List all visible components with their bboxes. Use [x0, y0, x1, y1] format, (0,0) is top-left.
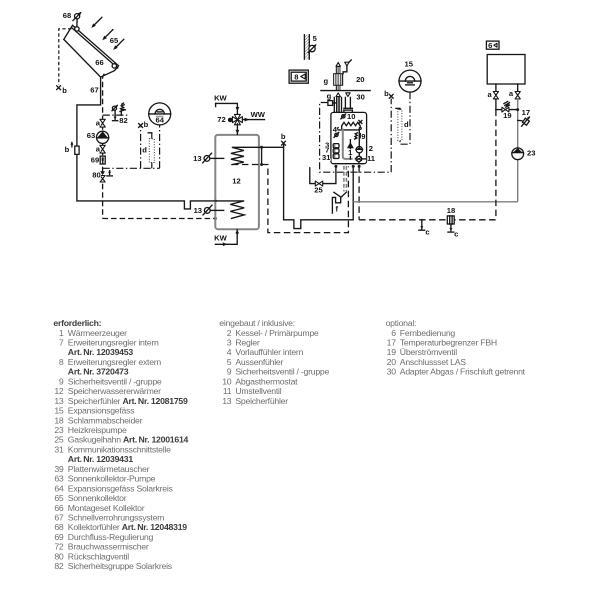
sensor connection square (outdoor sensor to boiler) — [328, 101, 336, 106]
internal gray pipe loop — [343, 129, 353, 159]
svg-text:Sicherheitsventil / -gruppe: Sicherheitsventil / -gruppe — [68, 376, 162, 386]
svg-text:31: 31 — [54, 444, 64, 454]
svg-text:9: 9 — [227, 367, 232, 377]
svg-text:65: 65 — [110, 36, 119, 45]
DHW mixer 72 — [228, 114, 243, 124]
svg-text:63: 63 — [87, 131, 95, 140]
shutoff valve a (heating supply) — [487, 90, 498, 99]
svg-text:Vorlauffühler intern: Vorlauffühler intern — [235, 347, 303, 357]
flue gas thermostat 10 — [341, 114, 346, 119]
controller modules 3/7/31 — [333, 144, 339, 159]
shutoff valve a (above solar pump) — [96, 118, 106, 127]
svg-text:30: 30 — [387, 367, 397, 377]
wire: vessel 15 connection (dash-dot) — [400, 92, 410, 144]
svg-text:b: b — [62, 86, 67, 95]
svg-text:4: 4 — [227, 347, 232, 357]
wire: heating supply from diverter (dashed) — [358, 166, 360, 219]
solar expansion vessel 64 — [149, 103, 171, 125]
svg-text:Fernbedienung: Fernbedienung — [400, 328, 456, 338]
condensate pipes (gray dashed) — [344, 166, 347, 192]
svg-text:Regler: Regler — [235, 338, 259, 348]
svg-text:9: 9 — [59, 376, 64, 386]
svg-text:Adapter Abgas / Frischluft get: Adapter Abgas / Frischluft getrennt — [400, 367, 526, 377]
tank sensor 13 (upper) — [203, 153, 224, 163]
svg-text:25: 25 — [54, 435, 64, 445]
wire: DHW flow pipe tank to boiler (solid, node b) — [244, 147, 353, 228]
flue inner pipe hatch below roof line — [337, 97, 340, 112]
svg-text:Heizkreispumpe: Heizkreispumpe — [68, 425, 127, 435]
svg-text:64: 64 — [155, 116, 164, 125]
svg-text:7: 7 — [59, 338, 64, 348]
svg-text:b: b — [65, 145, 70, 154]
outdoor sensor 5 — [308, 44, 316, 53]
svg-text:Sonnenkollektor: Sonnenkollektor — [68, 493, 127, 503]
svg-text:6: 6 — [391, 328, 396, 338]
wire: return pipe (gray) — [517, 99, 519, 202]
svg-text:19: 19 — [503, 111, 511, 120]
collector sensor 68 — [73, 12, 82, 26]
shutoff valve a (heating return) — [509, 89, 520, 99]
svg-text:KW: KW — [214, 233, 227, 242]
flow regulator 69 — [100, 156, 105, 164]
drain c (supply line) — [419, 220, 430, 237]
svg-text:b: b — [144, 120, 149, 129]
svg-text:1: 1 — [59, 328, 64, 338]
svg-text:13: 13 — [222, 396, 232, 406]
svg-text:3: 3 — [227, 338, 232, 348]
gas pipe with ball valve 25 — [310, 166, 336, 186]
svg-text:12: 12 — [232, 176, 240, 185]
wire: heating return (gray) — [353, 201, 518, 203]
svg-text:66: 66 — [95, 58, 103, 67]
boiler heat exchanger (zigzag) — [342, 122, 361, 128]
svg-text:Brauchwassermischer: Brauchwassermischer — [68, 542, 149, 552]
svg-text:17: 17 — [522, 108, 530, 117]
svg-text:Sicherheitsventil / -gruppe: Sicherheitsventil / -gruppe — [235, 367, 329, 377]
svg-text:Expansionsgefäss Solarkreis: Expansionsgefäss Solarkreis — [68, 483, 174, 493]
svg-text:2: 2 — [227, 328, 232, 338]
svg-text:Sonnenkollektor-Pumpe: Sonnenkollektor-Pumpe — [68, 474, 156, 484]
boiler pump 1 (triangle) — [347, 140, 354, 159]
svg-text:g: g — [327, 91, 332, 100]
svg-text:Erweiterungsregler extern: Erweiterungsregler extern — [68, 357, 162, 367]
svg-text:Überströmventil: Überströmventil — [400, 347, 457, 357]
svg-text:11: 11 — [223, 386, 232, 396]
wire: cold water inlet KW (bottom) — [215, 230, 238, 246]
roof separator line — [321, 90, 370, 92]
svg-text:Wärmeerzeuger: Wärmeerzeuger — [68, 328, 127, 338]
svg-text:2: 2 — [369, 144, 373, 153]
svg-text:c: c — [454, 229, 458, 238]
dirt separator 18 — [447, 216, 454, 224]
overflow valve 19 branch — [496, 102, 519, 113]
svg-text:13: 13 — [54, 396, 64, 406]
svg-text:23: 23 — [54, 425, 64, 435]
sun arrows 65 — [91, 17, 102, 28]
flue pipe adapter into boiler — [344, 97, 353, 112]
svg-text:82: 82 — [54, 561, 64, 571]
LAS flue set 20 (above roof line) — [334, 67, 343, 91]
wire: DHW loading loop (dashed) — [232, 165, 349, 233]
svg-text:13: 13 — [194, 206, 202, 215]
wire: mixer to tank top — [236, 124, 240, 135]
svg-text:6: 6 — [488, 41, 492, 50]
svg-text:Kollektorfühler Art. Nr. 12048: Kollektorfühler Art. Nr. 12048319 — [68, 522, 187, 532]
heating pump 23 — [512, 148, 524, 160]
air intake triangle (20) — [336, 63, 340, 67]
svg-text:67: 67 — [54, 513, 64, 523]
flow direction element b (left pipe) — [65, 141, 80, 154]
svg-text:b: b — [384, 89, 389, 98]
dashed sensor line to node b (collector) — [59, 29, 72, 85]
primary pump 2 — [356, 147, 363, 153]
warm water outlet WW arrow — [242, 118, 264, 122]
svg-text:68: 68 — [54, 522, 64, 532]
svg-text:Umstellventil: Umstellventil — [235, 386, 281, 396]
internal flow pipe — [337, 128, 359, 147]
svg-text:65: 65 — [54, 493, 64, 503]
svg-text:11: 11 — [367, 154, 376, 163]
svg-text:5: 5 — [227, 357, 232, 367]
sensor pocket d (solar) — [148, 133, 154, 169]
svg-text:c: c — [425, 228, 429, 237]
safety group 82 (dash-dot branch) — [103, 113, 128, 116]
wire: solar flow pipe 67 (solid) — [77, 77, 215, 209]
boiler flow sensor point x — [359, 121, 362, 124]
svg-text:31: 31 — [322, 153, 331, 162]
remote control box 6 — [486, 41, 499, 50]
svg-text:69: 69 — [54, 532, 64, 542]
svg-text:80: 80 — [54, 551, 64, 561]
svg-text:eingebaut / inklusive:: eingebaut / inklusive: — [219, 318, 295, 328]
manifold stubs — [496, 84, 518, 91]
svg-text:20: 20 — [387, 357, 397, 367]
flue outlet triangle (20) — [343, 60, 351, 74]
svg-text:72: 72 — [54, 542, 64, 552]
svg-text:erforderlich:: erforderlich: — [53, 318, 101, 328]
svg-text:10: 10 — [347, 112, 355, 121]
wire: solar return pipe (dashed) — [103, 74, 105, 219]
svg-text:Durchfluss-Regulierung: Durchfluss-Regulierung — [68, 532, 154, 542]
svg-text:Gaskugelhahn Art. Nr. 12001614: Gaskugelhahn Art. Nr. 12001614 — [68, 435, 189, 445]
boiler 1 (wall unit) — [331, 112, 367, 163]
svg-text:8: 8 — [294, 72, 298, 81]
svg-text:d: d — [404, 120, 409, 129]
svg-text:Kessel- / Primärpumpe: Kessel- / Primärpumpe — [235, 328, 319, 338]
condensate funnel and siphon f — [332, 192, 346, 213]
remote control box 8 — [289, 70, 308, 83]
node b (collector) — [57, 86, 68, 95]
wire: supply pipe (dashed) down — [495, 110, 497, 220]
svg-text:20: 20 — [356, 75, 364, 84]
svg-text:10: 10 — [222, 376, 232, 386]
outdoor wall with sensor 5 — [304, 35, 309, 60]
svg-text:68: 68 — [63, 11, 71, 20]
svg-text:67: 67 — [90, 86, 98, 95]
svg-text:Temperaturbegrenzer FBH: Temperaturbegrenzer FBH — [400, 338, 497, 348]
svg-text:optional:: optional: — [386, 318, 417, 328]
svg-text:69: 69 — [91, 155, 99, 164]
heating expansion vessel 15 — [399, 70, 421, 92]
wire: cold water inlet KW (top) — [216, 103, 240, 114]
svg-text:Aussenfühler: Aussenfühler — [235, 357, 283, 367]
svg-text:18: 18 — [447, 206, 455, 215]
lower coil (solar heat exchanger) — [215, 201, 244, 219]
air pipes into boiler — [334, 97, 341, 112]
svg-text:d: d — [142, 146, 147, 155]
svg-text:39: 39 — [54, 464, 64, 474]
storage tank 12 — [215, 135, 259, 229]
svg-text:64: 64 — [54, 483, 64, 493]
svg-text:Art. Nr. 12039431: Art. Nr. 12039431 — [68, 454, 134, 464]
upper coil (solar heat exchanger feed from boiler) — [231, 147, 244, 164]
svg-text:g: g — [323, 76, 328, 85]
svg-text:Schlammabscheider: Schlammabscheider — [68, 415, 143, 425]
junction tank flow/return — [260, 146, 263, 166]
svg-text:15: 15 — [54, 406, 64, 416]
svg-text:Art. Nr. 3720473: Art. Nr. 3720473 — [68, 367, 129, 377]
wire: dash-dot control boundary around boiler — [320, 99, 392, 173]
svg-text:82: 82 — [119, 116, 127, 125]
svg-text:Kommunikationsschnittstelle: Kommunikationsschnittstelle — [68, 444, 171, 454]
svg-text:23: 23 — [527, 148, 535, 157]
manometer (82 group) — [112, 105, 118, 116]
svg-text:Anschlussset LAS: Anschlussset LAS — [400, 357, 466, 367]
svg-text:30: 30 — [356, 92, 364, 101]
svg-text:Erweiterungsregler intern: Erweiterungsregler intern — [68, 338, 159, 348]
internal safety valve 9 — [354, 133, 360, 140]
svg-text:Speicherwassererwärmer: Speicherwassererwärmer — [68, 386, 161, 396]
wire: supply pipe solid part — [495, 99, 497, 110]
temperature limiter 17 — [518, 116, 531, 126]
svg-text:Speicherfühler Art. Nr. 120817: Speicherfühler Art. Nr. 12081759 — [68, 396, 188, 406]
svg-text:13: 13 — [193, 154, 201, 163]
tank sensor 13 (lower) — [203, 205, 224, 215]
svg-text:72: 72 — [217, 115, 225, 124]
safety valve (82 group) — [120, 103, 126, 115]
svg-text:15: 15 — [404, 60, 413, 69]
solar collector 65/66 panel — [64, 25, 119, 77]
svg-text:Sicherheitsgruppe Solarkreis: Sicherheitsgruppe Solarkreis — [68, 561, 173, 571]
svg-text:19: 19 — [387, 347, 397, 357]
flue triangle (30) — [346, 93, 350, 97]
svg-text:8: 8 — [59, 357, 64, 367]
svg-text:Art. Nr. 12039453: Art. Nr. 12039453 — [68, 347, 134, 357]
diverter valve 11 — [355, 153, 367, 164]
wire: heating supply horizontal (dashed) — [359, 219, 496, 221]
svg-text:25: 25 — [314, 186, 323, 195]
heating circuit manifold (floor heating) — [487, 55, 525, 85]
solar pump 63 — [97, 131, 109, 143]
boiler bottom connection dots — [334, 165, 337, 168]
svg-text:b: b — [281, 132, 286, 141]
svg-text:18: 18 — [54, 415, 64, 425]
drain c (at separator 18) — [448, 224, 458, 238]
check valve 80 — [100, 171, 105, 182]
drain (82 group) — [114, 115, 116, 119]
svg-text:66: 66 — [54, 503, 64, 513]
flow sensor 4 — [334, 132, 340, 138]
svg-text:Speicherfühler: Speicherfühler — [235, 396, 288, 406]
svg-text:12: 12 — [54, 386, 64, 396]
node b (boiler control) — [384, 89, 393, 98]
svg-text:17: 17 — [387, 338, 397, 348]
svg-text:Plattenwärmetauscher: Plattenwärmetauscher — [68, 464, 150, 474]
svg-text:Rückschlagventil: Rückschlagventil — [68, 551, 130, 561]
drain (at check valve 80) — [109, 171, 111, 175]
svg-text:9: 9 — [361, 132, 365, 141]
svg-text:Expansionsgefäss: Expansionsgefäss — [68, 406, 135, 416]
node b (tank DHW pipe) — [281, 132, 286, 147]
sensor pocket on boiler flow — [359, 127, 361, 129]
svg-text:Schnellverrohrungssystem: Schnellverrohrungssystem — [68, 513, 164, 523]
wire: dash-dot line to expansion vessel 64 — [103, 167, 160, 169]
svg-text:Abgasthermostat: Abgasthermostat — [235, 376, 298, 386]
svg-text:Montageset Kollektor: Montageset Kollektor — [68, 503, 145, 513]
svg-text:63: 63 — [54, 474, 64, 484]
node b (solar expansion line) — [139, 120, 149, 129]
svg-text:WW: WW — [251, 110, 266, 119]
svg-text:KW: KW — [214, 93, 227, 102]
sensor pocket d (heating) — [396, 108, 402, 140]
svg-text:80: 80 — [92, 170, 100, 179]
air intake triangle (30) — [336, 93, 340, 97]
shutoff valve a (below solar pump) — [96, 144, 106, 153]
